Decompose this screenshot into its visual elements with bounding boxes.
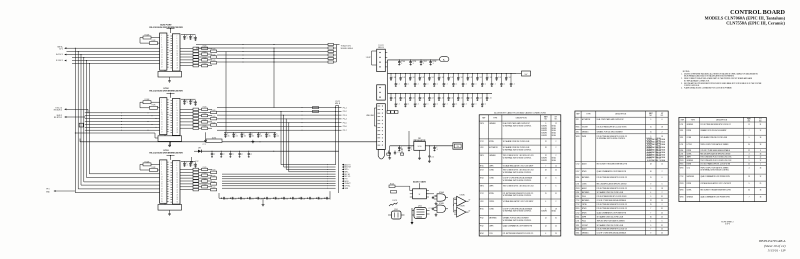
svg-text:HEX SCHMITT TRIGGER INVERTER 1: HEX SCHMITT TRIGGER INVERTER 14 PIN xyxy=(597,163,627,165)
svg-text:R 470: R 470 xyxy=(212,170,216,172)
svg-text:6: 6 xyxy=(662,184,663,186)
capacitor C751 xyxy=(315,197,317,199)
svg-text:RS-232 BUS DRIVER/RECEIVER: RS-232 BUS DRIVER/RECEIVER xyxy=(149,90,183,92)
svg-text:NLN6783: NLN6783 xyxy=(541,128,547,130)
svg-text:28: 28 xyxy=(650,163,652,165)
svg-text:SK-MDL GND A: SK-MDL GND A xyxy=(341,47,354,50)
svg-text:C .1: C .1 xyxy=(445,104,448,106)
svg-text:5/15/01 - UP: 5/15/01 - UP xyxy=(768,249,786,253)
svg-text:BTWN: BTWN xyxy=(582,208,586,210)
svg-text:C7: C7 xyxy=(250,154,252,156)
svg-text:C .01: C .01 xyxy=(412,77,415,79)
svg-text:CNTRL: CNTRL xyxy=(582,204,587,206)
svg-text:COIL: COIL xyxy=(687,167,691,169)
svg-text:22: 22 xyxy=(545,218,547,220)
wire bus from U702 to connector P2 xyxy=(217,107,342,109)
svg-text:R 470: R 470 xyxy=(212,181,216,183)
svg-text:C .1: C .1 xyxy=(397,104,400,106)
svg-text:NLN6783: NLN6783 xyxy=(541,160,547,162)
op-amp U707B xyxy=(457,207,466,217)
IC U703 Vcc pin wire xyxy=(170,156,172,160)
svg-text:L703: L703 xyxy=(680,144,684,146)
svg-text:DTL BUTTERLINE DRVER BTW 2-CKC: DTL BUTTERLINE DRVER BTW 2-CKCE CO xyxy=(597,136,628,138)
svg-text:S701: S701 xyxy=(576,225,580,227)
svg-text:18: 18 xyxy=(661,136,663,138)
svg-text:C .01: C .01 xyxy=(498,77,501,79)
parts table 2 xyxy=(575,111,668,235)
svg-text:BTWN: BTWN xyxy=(489,141,493,143)
inline jumper on aux wire 2 xyxy=(328,47,334,49)
svg-text:.1: .1 xyxy=(192,102,193,104)
svg-text:9: 9 xyxy=(749,137,750,139)
svg-text:R 100K: R 100K xyxy=(145,34,150,36)
rail 2 wire xyxy=(388,72,517,74)
svg-text:6: 6 xyxy=(662,119,663,121)
svg-text:15: 15 xyxy=(650,177,652,179)
input network resistors left of U701 xyxy=(143,36,151,39)
bottom strap box of U703 xyxy=(158,205,182,211)
svg-text:METERED: METERED xyxy=(582,177,590,179)
svg-text:CONN: CONN xyxy=(489,178,493,180)
ground bottom row xyxy=(262,198,264,203)
svg-text:GRN/BLK: GRN/BLK xyxy=(582,233,589,235)
svg-text:R 470: R 470 xyxy=(203,173,207,175)
svg-text:E704: E704 xyxy=(576,177,580,179)
rail 3 wire xyxy=(388,93,493,95)
svg-text:VR70: VR70 xyxy=(480,155,484,157)
svg-text:C .01: C .01 xyxy=(469,77,472,79)
svg-text:18: 18 xyxy=(661,127,663,129)
svg-text:C7: C7 xyxy=(223,154,225,156)
IC U702 Vcc pin wire xyxy=(170,93,172,97)
svg-text:R 470: R 470 xyxy=(212,54,216,56)
svg-text:C712: C712 xyxy=(576,200,580,202)
svg-text:DESCRIPTION: DESCRIPTION xyxy=(716,119,728,121)
svg-text:U707B: U707B xyxy=(460,205,465,207)
rail 2 capacitor bank xyxy=(390,72,393,75)
svg-text:22: 22 xyxy=(545,141,547,143)
svg-text:NLN64: NLN64 xyxy=(552,135,556,137)
svg-text:.1: .1 xyxy=(186,102,187,104)
wire rail above U703 xyxy=(201,150,338,152)
svg-text:9: 9 xyxy=(650,196,651,198)
svg-text:J701: J701 xyxy=(576,119,579,121)
input network resistors left of U703 xyxy=(143,163,151,166)
audio PA module Q701 xyxy=(392,211,402,219)
svg-text:R 470: R 470 xyxy=(212,49,216,51)
svg-text:4: 4 xyxy=(545,201,546,203)
svg-text:NLN6783: NLN6783 xyxy=(541,135,547,137)
svg-text:25: 25 xyxy=(555,233,557,235)
svg-text:18: 18 xyxy=(661,188,663,190)
svg-text:C .1: C .1 xyxy=(474,83,477,85)
svg-text:18: 18 xyxy=(760,137,762,139)
svg-text:12: 12 xyxy=(760,160,762,162)
svg-text:.1: .1 xyxy=(411,149,412,151)
svg-text:R 470: R 470 xyxy=(203,119,207,121)
component box on bus line xyxy=(79,123,83,127)
svg-text:C .01: C .01 xyxy=(460,97,463,99)
svg-text:12: 12 xyxy=(555,165,557,167)
svg-text:C .1: C .1 xyxy=(464,83,467,85)
svg-text:DTL BUTTERLINE DRVER BTW 2-CKC: DTL BUTTERLINE DRVER BTW 2-CKCE CO xyxy=(597,229,628,231)
bypass capacitor bank for U702 xyxy=(184,99,186,101)
svg-text:.1: .1 xyxy=(192,164,193,166)
svg-text:C7: C7 xyxy=(213,154,215,156)
capacitor C748 xyxy=(290,197,292,199)
svg-text:30: 30 xyxy=(650,217,652,219)
svg-text:C .01: C .01 xyxy=(392,97,395,99)
svg-text:C712: C712 xyxy=(576,204,580,206)
wire TXD BUS 2 with bend xyxy=(67,108,89,110)
svg-text:C .1: C .1 xyxy=(455,83,458,85)
svg-text:2: 2 xyxy=(662,171,663,173)
capacitor C742 xyxy=(238,197,240,199)
svg-text:DTL BUTTERLINE DRVER BTW 2-CKC: DTL BUTTERLINE DRVER BTW 2-CKCE CO xyxy=(597,208,628,210)
svg-text:CR7: CR7 xyxy=(198,148,201,150)
svg-text:METERED: METERED xyxy=(687,176,695,178)
svg-text:15: 15 xyxy=(650,204,652,206)
svg-text:4: 4 xyxy=(650,221,651,223)
svg-text:C7 2: C7 2 xyxy=(203,144,206,146)
node A+ oval terminal xyxy=(440,57,449,62)
svg-text:9: 9 xyxy=(650,225,651,227)
feedback wire U707 xyxy=(453,198,455,212)
svg-text:CR70: CR70 xyxy=(680,160,684,162)
svg-text:.01: .01 xyxy=(244,135,246,137)
bypass capacitor bank for U703 xyxy=(184,161,186,163)
svg-text:9: 9 xyxy=(749,183,750,185)
svg-text:BTWN: BTWN xyxy=(687,183,691,185)
svg-text:R 10K: R 10K xyxy=(390,183,394,185)
svg-text:5V: 5V xyxy=(469,200,471,202)
inline jumper on P2 wire 2 xyxy=(313,110,319,112)
junction dropper wire x=274 xyxy=(273,48,275,108)
svg-text:L703: L703 xyxy=(680,124,684,126)
svg-text:18: 18 xyxy=(760,144,762,146)
svg-text:Q702: Q702 xyxy=(418,206,422,208)
svg-text:.01: .01 xyxy=(227,135,229,137)
svg-text:CONN: CONN xyxy=(687,137,691,139)
svg-text:CR70: CR70 xyxy=(680,183,684,185)
svg-text:R 470: R 470 xyxy=(203,63,207,65)
svg-text:25: 25 xyxy=(661,229,663,231)
svg-text:RS BUS 2: RS BUS 2 xyxy=(54,109,62,111)
svg-text:DTL BUTTERLINE DRVER BTW 2-CKC: DTL BUTTERLINE DRVER BTW 2-CKCE CO xyxy=(597,188,628,190)
capacitor C741 xyxy=(229,197,231,199)
svg-text:VR70: VR70 xyxy=(576,136,580,138)
regulator input capacitor C1 xyxy=(399,145,400,146)
wire A+ feed across to connector xyxy=(80,141,206,143)
IC U703 pin stubs xyxy=(167,161,169,163)
op-amp U707A xyxy=(457,196,466,206)
svg-text:12: 12 xyxy=(555,123,557,125)
svg-text:REF: REF xyxy=(576,114,579,116)
svg-text:CNTRL: CNTRL xyxy=(489,201,494,203)
svg-text:C .1: C .1 xyxy=(436,104,439,106)
svg-text:NLN6783: NLN6783 xyxy=(541,130,547,132)
capacitor C750 xyxy=(307,197,309,199)
svg-text:CR70: CR70 xyxy=(480,123,484,125)
svg-text:12: 12 xyxy=(760,157,762,159)
wire bus rows into U701 xyxy=(67,47,160,49)
resistor R720 xyxy=(389,185,395,188)
svg-text:9: 9 xyxy=(545,123,546,125)
svg-text:25: 25 xyxy=(661,213,663,215)
vertical wire pair to audio section xyxy=(335,106,337,165)
svg-text:VR70: VR70 xyxy=(680,197,684,199)
svg-text:SOCKET: SOCKET xyxy=(582,127,588,129)
svg-text:E704: E704 xyxy=(576,196,580,198)
svg-text:S701: S701 xyxy=(576,233,580,235)
svg-text:22: 22 xyxy=(748,164,750,166)
svg-text:VR70: VR70 xyxy=(680,190,684,192)
regulator ground pin xyxy=(419,150,421,156)
svg-text:9: 9 xyxy=(650,136,651,138)
svg-text:KIT: KIT xyxy=(555,117,557,119)
svg-text:31: 31 xyxy=(760,124,762,126)
svg-text:7: 7 xyxy=(545,165,546,167)
output series resistors of U701 xyxy=(180,47,193,49)
svg-text:U707: U707 xyxy=(576,171,580,173)
svg-text:R 470: R 470 xyxy=(212,187,216,189)
audio gate IC U705 xyxy=(413,189,427,199)
bypass capacitor bank for U701 xyxy=(184,35,186,37)
svg-text:C .1: C .1 xyxy=(503,83,506,85)
connector J2 middle section xyxy=(377,85,386,100)
svg-text:25: 25 xyxy=(661,200,663,202)
IC U702 left pin block xyxy=(160,98,167,135)
svg-text:VR70: VR70 xyxy=(680,167,684,169)
wire bus from U703 to option connector labels xyxy=(326,163,329,166)
svg-text:5V: 5V xyxy=(469,211,471,213)
svg-text:C .1: C .1 xyxy=(445,83,448,85)
svg-text:COIL: COIL xyxy=(489,233,493,235)
svg-text:31: 31 xyxy=(661,208,663,210)
svg-text:J701: J701 xyxy=(576,131,579,133)
parts table 3 xyxy=(679,117,766,201)
svg-text:C712: C712 xyxy=(480,141,484,143)
svg-text:C .01: C .01 xyxy=(431,77,434,79)
regulator output capacitor C4 xyxy=(434,145,435,146)
ground under gate U706A xyxy=(435,202,437,204)
svg-text:18: 18 xyxy=(760,197,762,199)
svg-text:NLN6783: NLN6783 xyxy=(541,133,547,135)
svg-text:AUDIO GATE: AUDIO GATE xyxy=(413,180,427,183)
svg-text:C74: C74 xyxy=(303,198,306,200)
regulator output wire xyxy=(425,145,453,147)
svg-text:C .01: C .01 xyxy=(412,97,415,99)
svg-text:S701: S701 xyxy=(680,137,684,139)
capacitor C743 xyxy=(247,197,249,199)
node 5V boxed terminal xyxy=(522,71,531,76)
svg-text:NLN64: NLN64 xyxy=(552,128,556,130)
svg-text:TWO CONN MOD PLK 1 B X MODL W: TWO CONN MOD PLK 1 B X MODL W/ LOCK xyxy=(700,160,731,162)
capacitor filter row at U703 output bus xyxy=(219,197,330,199)
svg-text:4: 4 xyxy=(749,167,750,169)
svg-text:C .1: C .1 xyxy=(484,104,487,106)
svg-text:C7: C7 xyxy=(232,154,234,156)
svg-text:C74: C74 xyxy=(320,198,323,200)
ground lower-left of U703 xyxy=(191,157,193,160)
svg-text:CONN: CONN xyxy=(582,184,586,186)
svg-text:U706B: U706B xyxy=(439,203,444,205)
svg-text:CNTRL: CNTRL xyxy=(687,190,692,192)
IC U702 pin stubs xyxy=(167,99,169,101)
wire from bus to U702 strap xyxy=(75,133,76,134)
svg-text:NLN64: NLN64 xyxy=(552,211,556,213)
resistor R721 xyxy=(391,191,397,194)
svg-text:U 90: U 90 xyxy=(418,146,422,148)
svg-text:U707: U707 xyxy=(480,170,484,172)
audio PA module Q702 xyxy=(414,208,427,219)
svg-text:P2-7: P2-7 xyxy=(343,130,347,132)
svg-text:KIT: KIT xyxy=(661,113,663,115)
capacitor C740 xyxy=(221,197,223,199)
svg-text:NLN64: NLN64 xyxy=(552,133,556,135)
svg-text:C74: C74 xyxy=(242,198,245,200)
svg-text:.1: .1 xyxy=(423,63,424,65)
resistor R722 diagonal xyxy=(389,202,398,206)
input capacitor for U706B xyxy=(432,207,434,210)
svg-text:25: 25 xyxy=(555,226,557,228)
gate U706B xyxy=(437,205,446,212)
svg-text:3 OF 3: 3 OF 3 xyxy=(725,224,730,226)
svg-text:LINE GND: LINE GND xyxy=(366,115,375,117)
bottom strap box of U701 xyxy=(158,71,182,77)
svg-text:(Sheet 10 of 12): (Sheet 10 of 12) xyxy=(764,244,786,248)
svg-text:GRN/BLK: GRN/BLK xyxy=(489,123,496,125)
svg-text:4: 4 xyxy=(545,233,546,235)
svg-text:C .1: C .1 xyxy=(416,83,419,85)
svg-text:31: 31 xyxy=(555,193,557,195)
svg-text:9: 9 xyxy=(650,119,651,121)
svg-text:P2-5: P2-5 xyxy=(343,122,347,124)
ground stub near U702 resistors xyxy=(205,132,207,139)
svg-text:+: + xyxy=(394,153,395,155)
svg-text:28: 28 xyxy=(545,170,547,172)
svg-text:BTWN: BTWN xyxy=(489,193,493,195)
svg-text:7: 7 xyxy=(749,130,750,132)
svg-text:GRN/BLK: GRN/BLK xyxy=(687,160,694,162)
svg-text:MODELS CLN7060A (EPIC III, Tan: MODELS CLN7060A (EPIC III, Tantalum) xyxy=(705,15,786,20)
svg-text:METERED: METERED xyxy=(489,218,497,220)
svg-text:VR70: VR70 xyxy=(680,157,684,159)
svg-text:.01: .01 xyxy=(235,135,237,137)
svg-text:DTL BUTTERLINE DRVER BTW 2-CKC: DTL BUTTERLINE DRVER BTW 2-CKCE CO xyxy=(597,204,628,206)
input capacitor for U706A xyxy=(432,196,434,199)
svg-text:L703: L703 xyxy=(576,184,580,186)
bracket at connector long section xyxy=(374,108,376,126)
svg-text:TP 6: TP 6 xyxy=(46,189,50,191)
jumper boxes below rails xyxy=(387,94,389,111)
svg-text:C712: C712 xyxy=(576,213,580,215)
wire audio gate to op-amps xyxy=(426,193,434,195)
inline jumper on aux wire 1 xyxy=(328,43,334,45)
svg-text:R705: R705 xyxy=(480,208,484,210)
inline jumper on aux wire 5 xyxy=(328,57,334,59)
svg-text:6: 6 xyxy=(662,221,663,223)
svg-text:R 470: R 470 xyxy=(203,57,207,59)
capacitor C745 xyxy=(264,197,266,199)
svg-text:R 4.7K: R 4.7K xyxy=(393,200,398,202)
svg-text:A 2.5V 1: A 2.5V 1 xyxy=(56,53,63,56)
svg-text:CONTROL MODULE.: CONTROL MODULE. xyxy=(684,85,700,87)
svg-text:R 470: R 470 xyxy=(203,52,207,54)
dropper wires from U702 bus down to U703 bus xyxy=(280,111,282,164)
vertical feed joining rails xyxy=(387,60,389,94)
svg-text:P2-1: P2-1 xyxy=(343,107,347,109)
svg-text:C .1: C .1 xyxy=(426,83,429,85)
output series resistors of U702 xyxy=(180,108,193,110)
svg-text:C .1: C .1 xyxy=(407,104,410,106)
svg-text:25: 25 xyxy=(661,217,663,219)
svg-text:C .1: C .1 xyxy=(512,83,515,85)
svg-text:7: 7 xyxy=(749,197,750,199)
svg-text:DTL BUTTERLINE DRVER BTW 2-CKC: DTL BUTTERLINE DRVER BTW 2-CKCE CO xyxy=(700,124,731,126)
svg-text:31: 31 xyxy=(661,225,663,227)
svg-text:R 47K: R 47K xyxy=(152,105,156,107)
svg-text:JU701: JU701 xyxy=(212,137,217,139)
svg-text:P702: P702 xyxy=(480,218,484,220)
svg-text:ACCESSORY CABLE PLUGS AND CASI: ACCESSORY CABLE PLUGS AND CASING CONNECT… xyxy=(494,111,546,114)
svg-text:31: 31 xyxy=(555,218,557,220)
capacitor C746 xyxy=(272,197,274,199)
svg-text:.1: .1 xyxy=(186,164,187,166)
svg-text:C .1: C .1 xyxy=(464,104,467,106)
svg-text:SOCKET: SOCKET xyxy=(582,225,588,227)
svg-text:C .01: C .01 xyxy=(421,77,424,79)
svg-text:L703: L703 xyxy=(480,147,484,149)
svg-text:C 10: C 10 xyxy=(431,157,434,159)
input wires into U702 xyxy=(85,112,160,114)
svg-text:18: 18 xyxy=(760,167,762,169)
svg-text:25: 25 xyxy=(760,183,762,185)
node 5V SW boxed terminal xyxy=(453,143,463,149)
wire BUS 2 RTN xyxy=(67,116,85,118)
svg-text:.1: .1 xyxy=(436,149,437,151)
regulator input rail xyxy=(390,145,414,147)
svg-text:HEX SCHMITT TRIGGER INVERTER 1: HEX SCHMITT TRIGGER INVERTER 14 PIN xyxy=(700,190,730,192)
svg-text:NOTES:: NOTES: xyxy=(683,71,691,73)
IC U703 left pin block xyxy=(160,160,167,203)
svg-text:22: 22 xyxy=(748,157,750,159)
svg-text:CONN: CONN xyxy=(489,208,493,210)
svg-text:R705: R705 xyxy=(680,164,684,166)
svg-text:10: 10 xyxy=(401,149,403,151)
svg-text:R 470: R 470 xyxy=(203,184,207,186)
svg-text:30: 30 xyxy=(748,190,750,192)
svg-text:15: 15 xyxy=(545,193,547,195)
capacitor C744 xyxy=(255,197,257,199)
svg-text:7: 7 xyxy=(650,208,651,210)
svg-text:DESCRIPTION: DESCRIPTION xyxy=(516,118,528,120)
svg-text:GRN/BLK: GRN/BLK xyxy=(489,155,496,157)
svg-text:C74: C74 xyxy=(294,198,297,200)
svg-text:22: 22 xyxy=(650,200,652,202)
svg-text:30: 30 xyxy=(650,171,652,173)
svg-text:DTL BUTTERLINE DRVER BTW 2-CKC: DTL BUTTERLINE DRVER BTW 2-CKCE CO xyxy=(597,177,628,179)
inline jumper on aux wire 3 xyxy=(328,50,334,52)
svg-text:12: 12 xyxy=(760,130,762,132)
svg-text:S701: S701 xyxy=(680,130,684,132)
svg-text:C .01: C .01 xyxy=(440,97,443,99)
svg-text:REF: REF xyxy=(681,119,684,121)
svg-text:.1: .1 xyxy=(192,38,193,40)
svg-text:TWO CONN MOD PLK 1 B X MODL W: TWO CONN MOD PLK 1 B X MODL W/ LOCK xyxy=(503,186,534,188)
svg-text:5V 1: 5V 1 xyxy=(59,48,63,50)
svg-text:GRN/BLK: GRN/BLK xyxy=(687,124,694,126)
